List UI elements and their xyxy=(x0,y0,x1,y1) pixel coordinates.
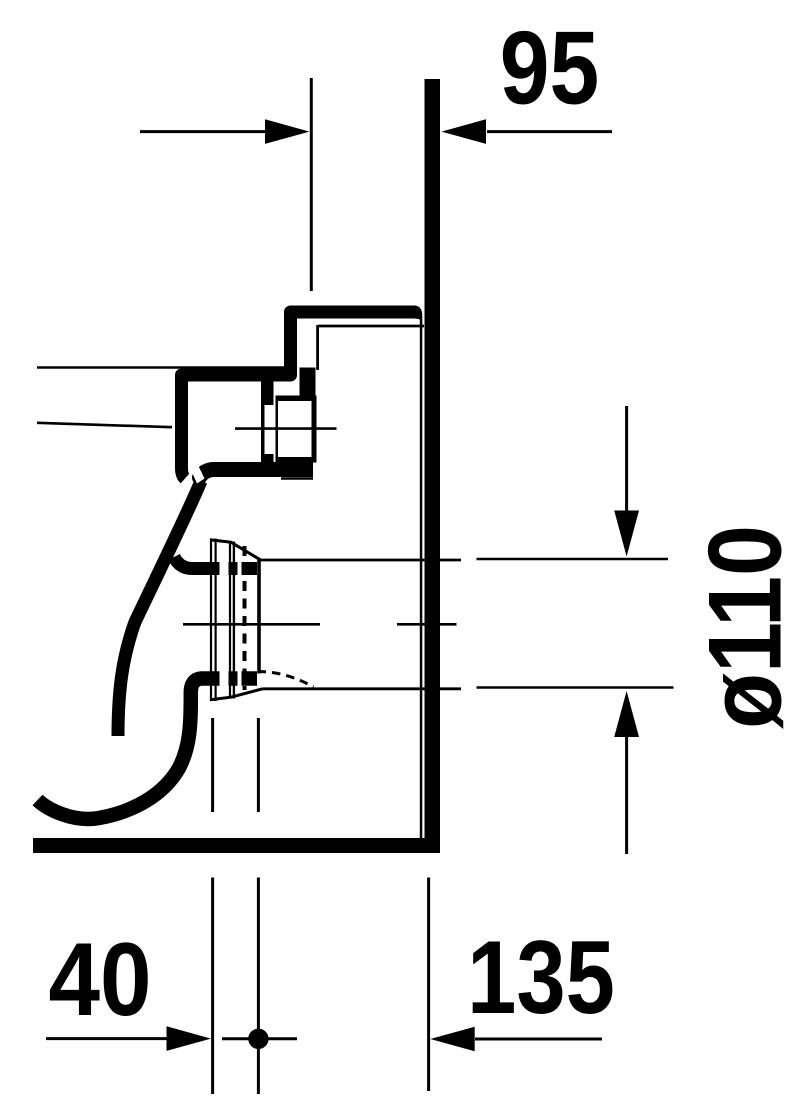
body step outline xyxy=(182,312,413,479)
flange right edge xyxy=(257,559,261,674)
shelf inner corner vertical xyxy=(316,325,319,370)
flange bar white slits xyxy=(220,558,229,578)
wall xyxy=(425,79,441,853)
fixing pocket inner white xyxy=(278,401,312,457)
pocket bottom thin line xyxy=(281,477,313,479)
extension line 40 left upper xyxy=(211,718,214,812)
arrowhead left-pointing at wall xyxy=(442,119,487,144)
extension line top left xyxy=(310,78,313,291)
extension line 40 left lower xyxy=(211,878,214,1095)
dia up arrowhead xyxy=(614,691,639,737)
flange mid line 1 xyxy=(229,542,231,699)
slot vertical xyxy=(261,381,274,462)
centerline left xyxy=(183,623,320,626)
pocket bottom bar xyxy=(212,462,313,477)
front curve xyxy=(118,481,201,736)
wall extension line below floor xyxy=(427,878,430,1092)
block right of step xyxy=(300,368,316,402)
dia down arrow line xyxy=(625,406,628,512)
dim line to left ext xyxy=(140,130,268,133)
back edge thin line along wall xyxy=(410,306,422,839)
pipe bottom line xyxy=(263,687,462,690)
shelf inner line xyxy=(318,325,424,328)
hidden pipe dashed arc xyxy=(258,672,314,688)
flange mid line 2 xyxy=(233,542,235,699)
dia down arrowhead xyxy=(614,511,639,557)
dia up arrow line xyxy=(625,736,628,854)
centerline at wall xyxy=(397,623,457,626)
slot vertical white inset xyxy=(265,405,274,454)
datum dot xyxy=(248,1029,268,1049)
svg-text:ø110: ø110 xyxy=(686,525,803,729)
arrowhead right-pointing xyxy=(265,119,310,144)
flange left edge line 2 xyxy=(215,539,217,702)
pocket centerline xyxy=(235,427,337,430)
svg-text:95: 95 xyxy=(500,9,599,126)
flange bottom edge xyxy=(210,689,263,700)
outlet top wall xyxy=(174,557,257,569)
flange top edge xyxy=(210,540,260,560)
arrowhead 135 xyxy=(430,1027,474,1052)
extension line 40 right upper xyxy=(257,718,260,812)
dim line 40 xyxy=(46,1037,170,1040)
seat line upper xyxy=(37,366,284,369)
pipe top line xyxy=(260,559,461,562)
extension line 40 right lower xyxy=(257,878,260,1095)
dia extension top xyxy=(477,558,669,561)
seat line lower xyxy=(37,423,172,427)
outlet bottom wall and pedestal back curve xyxy=(38,679,258,819)
dim line 95 xyxy=(487,130,612,133)
arrowhead 40 xyxy=(167,1026,212,1051)
dia extension bottom xyxy=(477,686,674,689)
svg-text:40: 40 xyxy=(48,921,151,1037)
fixing pocket outer xyxy=(276,396,317,463)
svg-text:135: 135 xyxy=(467,920,615,1035)
notch white gap xyxy=(189,461,205,484)
flange left edge line 1 xyxy=(210,539,212,702)
floor xyxy=(33,838,439,853)
dim line 135 xyxy=(475,1038,602,1041)
flange dashed hidden line xyxy=(243,546,247,690)
datum line through dot xyxy=(222,1037,297,1040)
